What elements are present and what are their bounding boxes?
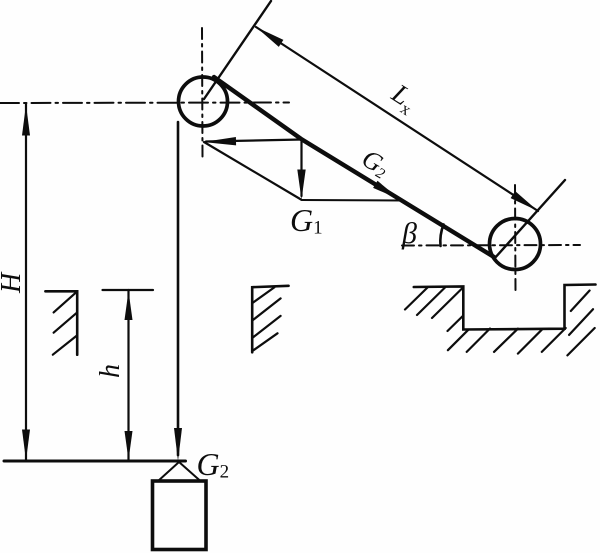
label h (95, 364, 126, 378)
arrowhead Lx upper-left (256, 27, 283, 47)
weight box G2 (153, 481, 207, 550)
dimension line Lx (256, 27, 538, 211)
extension line 1 (from pulley A up-right) (204, 1, 271, 99)
dimension line h (127, 290, 129, 460)
label Lx (384, 77, 424, 119)
arrowhead h top (125, 291, 133, 320)
wire: vertical dash-dot centerline through pulley B (514, 185, 517, 291)
svg-text:β: β (401, 217, 417, 250)
h reference tick (103, 289, 154, 291)
ground line (4, 460, 186, 463)
rope arrowhead down (174, 428, 182, 461)
pulley B (490, 219, 541, 270)
weight hanger triangle (158, 462, 202, 482)
force vector: G1 gravity (arrow pointing down) (300, 140, 302, 196)
svg-text:H: H (0, 271, 27, 294)
rope (vertical wire from pulley A) (177, 122, 180, 455)
arrowhead H bottom (22, 430, 30, 461)
wire: vertical dash-dot centerline through pulley A (201, 28, 204, 157)
extension line 2 (through pulley B up-right) (494, 180, 565, 259)
arrowhead h bottom (125, 431, 133, 460)
force vector: horizontal component (arrow pointing left) (206, 140, 302, 142)
label H (0, 271, 27, 294)
force parallelogram side (parallel to incline) (204, 142, 301, 200)
force vector G2 along incline (arrowhead on incline) (373, 181, 400, 200)
incline (thick line) (214, 77, 494, 257)
force parallelogram bottom side (302, 199, 404, 202)
hatch lines block left (53, 293, 77, 355)
angle arc beta (440, 225, 443, 247)
pulley A (179, 77, 228, 126)
hatched block left (ledge with right edge) (45, 291, 77, 354)
wire: horizontal dash-dot centerline through pulley B (402, 244, 580, 247)
svg-text:h: h (95, 364, 126, 378)
arrowhead Lx lower-right (511, 191, 538, 211)
hatch lines block middle (252, 287, 280, 350)
arrowhead H top (22, 105, 30, 136)
hatched block middle (ledge with left edge) (252, 286, 288, 353)
label G2 on incline (357, 144, 395, 183)
wire: horizontal dash-dot centerline through pulley A (0, 102, 289, 105)
right ground block with trench outline (414, 285, 596, 330)
hatch lines right ground block (405, 288, 595, 356)
dimension line H (25, 104, 27, 460)
